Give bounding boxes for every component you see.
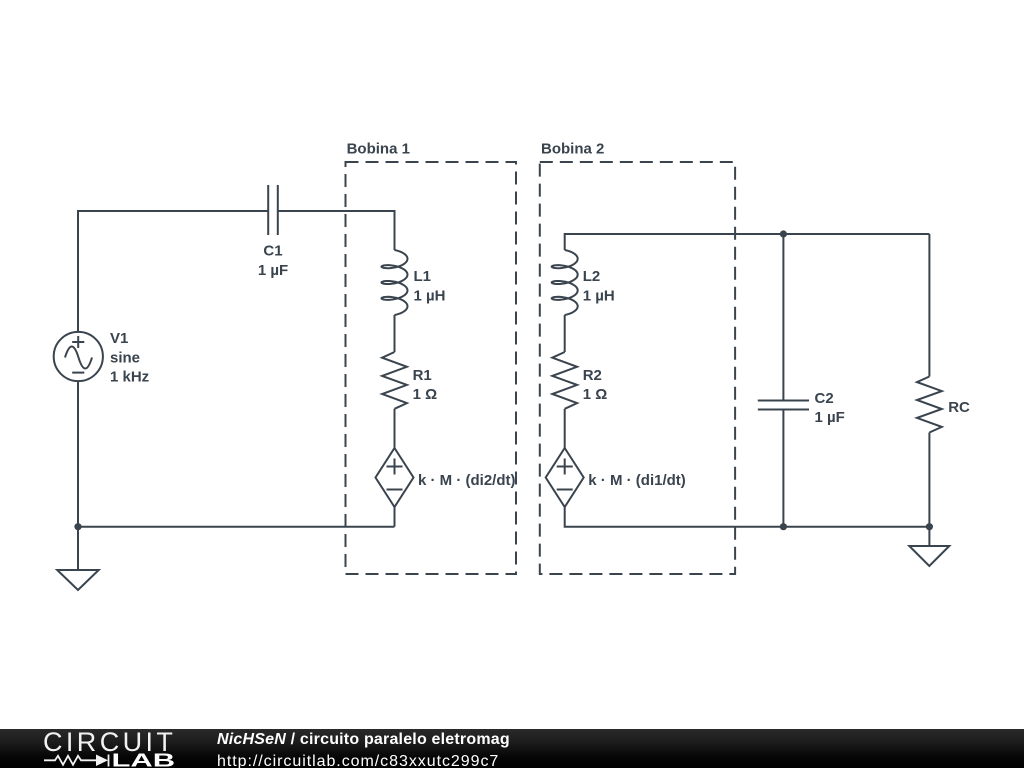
label V1 value: [110, 330, 149, 386]
svg-text:1 kHz: 1 kHz: [110, 369, 149, 386]
enclosure Bobina 1: [346, 162, 517, 574]
svg-text:Bobina 1: Bobina 1: [347, 140, 410, 157]
wire top of Bobina 2 to right rail: [565, 234, 930, 250]
wire L2 to R2: [564, 315, 566, 352]
credit text: [217, 731, 510, 749]
ground left: [57, 527, 98, 590]
wire B1 to bottom: [394, 507, 396, 527]
svg-text:LAB: LAB: [112, 751, 176, 768]
label R2 value: [583, 367, 608, 403]
dependent source B1: [376, 448, 414, 507]
inductor L1: [382, 250, 408, 315]
svg-text:L2: L2: [583, 268, 601, 285]
label L2 value: [583, 268, 615, 304]
svg-text:R2: R2: [583, 367, 602, 384]
label L1 value: [414, 268, 446, 304]
svg-text:RC: RC: [948, 399, 970, 416]
wire right rail down to RC: [928, 234, 930, 377]
wire R2 to B2: [564, 409, 566, 448]
CircuitLab logo: [0, 729, 200, 768]
svg-text:L1: L1: [414, 268, 432, 285]
svg-text:R1: R1: [413, 367, 432, 384]
enclosure Bobina 2: [540, 162, 735, 574]
svg-text:k · M · (di1/dt): k · M · (di1/dt): [588, 472, 686, 489]
resistor R1: [382, 352, 407, 409]
wire C2 top: [782, 234, 784, 401]
wire B2 bottom to right ground rail: [565, 507, 930, 527]
svg-text:1 µH: 1 µH: [414, 287, 446, 304]
wire V1 bottom to ground node: [77, 381, 79, 527]
voltage source V1: [54, 332, 103, 381]
svg-text:1 Ω: 1 Ω: [413, 386, 438, 403]
node junction C2 bottom: [780, 523, 787, 530]
svg-text:C2: C2: [815, 390, 834, 407]
capacitor C2: [758, 401, 809, 410]
svg-text:1 µF: 1 µF: [258, 262, 288, 279]
resistor RC: [917, 377, 942, 433]
node junction right ground: [926, 523, 933, 530]
svg-text:1 µF: 1 µF: [815, 409, 845, 426]
node junction left ground: [74, 523, 81, 530]
ground right: [909, 527, 949, 566]
resistor R2: [552, 352, 577, 409]
label C2 value: [815, 390, 845, 426]
wire top from V1 to C1 left plate: [78, 211, 268, 332]
svg-text:1 µH: 1 µH: [583, 287, 615, 304]
wire L1 to R1: [394, 315, 396, 352]
wire R1 to B1: [394, 409, 396, 448]
inductor L2: [552, 250, 578, 315]
url text: [217, 753, 499, 768]
svg-text:C1: C1: [263, 243, 282, 260]
dependent source B2: [546, 448, 584, 507]
svg-text:Bobina 2: Bobina 2: [541, 140, 604, 157]
svg-text:k · M · (di2/dt): k · M · (di2/dt): [418, 472, 516, 489]
wire from C1 right plate to L1 top corner: [278, 211, 395, 250]
wire RC bottom: [928, 433, 930, 527]
svg-text:sine: sine: [110, 349, 140, 366]
svg-text:1 Ω: 1 Ω: [583, 386, 608, 403]
svg-text:V1: V1: [110, 330, 128, 347]
wire C2 bottom: [782, 410, 784, 527]
label R1 value: [413, 367, 438, 403]
wire bottom left from ground node to B1: [78, 526, 395, 528]
footer bar: [0, 729, 1024, 768]
capacitor C1: [268, 185, 278, 235]
node junction C2 top: [780, 230, 787, 237]
